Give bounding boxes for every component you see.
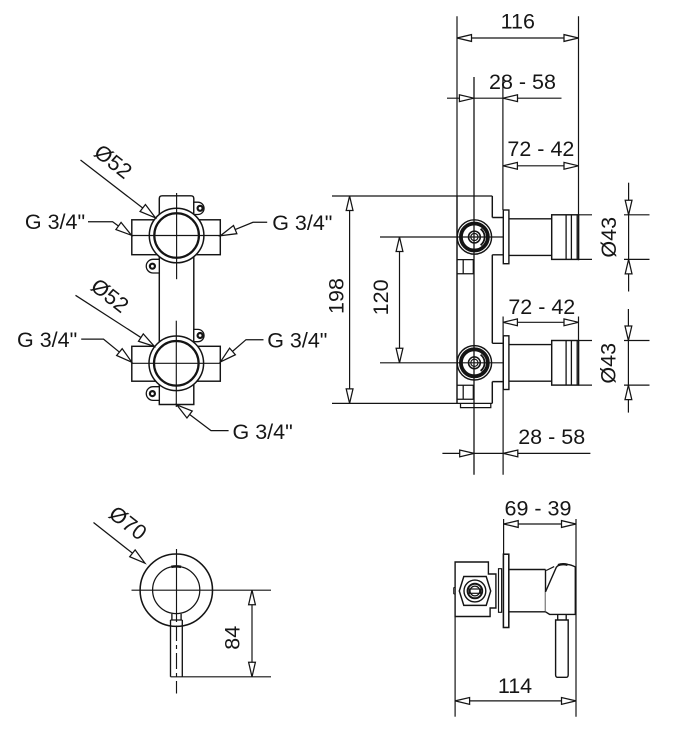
pipe valve 2 bbox=[509, 345, 552, 382]
valve 2 boss circles bbox=[457, 346, 491, 380]
leader O70 bbox=[94, 523, 135, 555]
side tab below valve 1 bbox=[457, 260, 473, 274]
leader G 3/4 upper-left bbox=[88, 222, 122, 229]
mounting tab top-right of valve 1 bbox=[194, 202, 204, 214]
svg-text:G 3/4": G 3/4" bbox=[233, 420, 293, 444]
handle rod bbox=[556, 620, 569, 677]
trim sleeve cylinder bbox=[509, 570, 546, 612]
dim 72-42 bottom line bbox=[503, 321, 579, 323]
dim 72-42 bottom extension left bbox=[502, 317, 504, 475]
flange valve 2 bbox=[503, 336, 509, 390]
centerline valve 1 bbox=[380, 236, 509, 238]
screw hole bottom-left valve 1 bbox=[150, 264, 155, 269]
screw slot bbox=[469, 589, 480, 593]
leader G 3/4 lower-left bbox=[81, 339, 121, 354]
dim 120 line bbox=[399, 237, 401, 363]
dim 28-58 top line bbox=[447, 97, 562, 99]
pipe valve 1 bbox=[509, 219, 552, 256]
leader line O52 valve 1 bbox=[81, 160, 145, 209]
dim 198 line bbox=[349, 196, 351, 403]
svg-text:Ø43: Ø43 bbox=[597, 217, 621, 258]
valve body vertical column bbox=[159, 196, 194, 405]
side tab below valve 2 bbox=[457, 385, 473, 399]
handle cap bbox=[546, 564, 576, 614]
centerline horizontal valve 1 bbox=[132, 235, 221, 237]
body step to flange valve 2 bbox=[492, 343, 503, 381]
dim O43 top stubs bbox=[579, 215, 650, 260]
dim 72-42 bottom extension right bbox=[578, 317, 580, 341]
svg-text:G 3/4": G 3/4" bbox=[267, 329, 327, 353]
svg-text:114: 114 bbox=[498, 674, 532, 698]
dim O43 bottom line bbox=[627, 309, 629, 413]
mounting tab bottom-left of valve 1 bbox=[146, 259, 159, 273]
body step to flange valve 1 bbox=[492, 218, 503, 255]
svg-text:Ø43: Ø43 bbox=[597, 343, 621, 384]
centerline vertical valve 1 bbox=[176, 193, 178, 279]
dim 28-58 top right extension bbox=[502, 77, 504, 210]
dim 114 line bbox=[455, 700, 576, 702]
dim 116 extension left bbox=[456, 16, 458, 196]
body right edge segments bbox=[491, 196, 493, 403]
screw hole bottom-left valve 2 bbox=[150, 391, 155, 396]
plate back plane line bbox=[473, 77, 475, 475]
cross connection block valve 1 bbox=[132, 220, 221, 255]
svg-text:69 - 39: 69 - 39 bbox=[505, 497, 572, 521]
dim 116 extension right bbox=[578, 16, 580, 260]
dim 72-42 top line bbox=[503, 165, 579, 167]
dim 116 line bbox=[457, 37, 579, 39]
wall plate left edge bbox=[456, 196, 458, 403]
leader G 3/4 upper-right bbox=[233, 222, 268, 230]
mounting tab bottom-left of valve 2 bbox=[146, 387, 159, 401]
stem bottom line extended bbox=[171, 676, 272, 678]
dim O43 bottom stubs bbox=[579, 341, 650, 386]
dim 28-58 bottom line bbox=[442, 452, 590, 454]
svg-text:G 3/4": G 3/4" bbox=[17, 328, 77, 352]
nut circles bbox=[464, 580, 486, 602]
body bottom edge with 198 extension bbox=[332, 402, 492, 404]
dim 69-39 extension left bbox=[503, 519, 505, 554]
svg-text:84: 84 bbox=[221, 626, 245, 650]
dim O43 top line bbox=[628, 183, 630, 292]
dim 114 extension left bbox=[454, 617, 456, 717]
handle stem bbox=[171, 620, 183, 677]
dim 69-39 line bbox=[504, 523, 576, 525]
svg-text:120: 120 bbox=[369, 279, 393, 315]
valve 2 inner circle bbox=[154, 341, 199, 386]
coupling valve 1 bbox=[552, 215, 579, 260]
mounting tab top-right of valve 2 bbox=[194, 329, 204, 341]
handle cap inner line bbox=[546, 567, 554, 571]
svg-text:72 - 42: 72 - 42 bbox=[508, 295, 575, 319]
flange valve 1 bbox=[503, 210, 509, 264]
centerline vertical bbox=[176, 549, 178, 622]
dim 84 line bbox=[251, 590, 253, 677]
HANDLE FRONT VIEW (bottom-left) bbox=[132, 549, 272, 694]
screw hole top-right valve 1 bbox=[198, 206, 203, 211]
handle stem neck bbox=[172, 614, 181, 620]
svg-text:28 - 58: 28 - 58 bbox=[518, 425, 585, 449]
valve 1 outer circle (O52) bbox=[149, 208, 204, 263]
handle top dark arc bbox=[558, 563, 568, 566]
svg-text:198: 198 bbox=[325, 278, 349, 314]
body top edge with 198 extension bbox=[332, 195, 492, 197]
svg-text:116: 116 bbox=[501, 10, 535, 34]
lever hinge arc bbox=[171, 565, 181, 568]
svg-text:72 - 42: 72 - 42 bbox=[507, 137, 574, 161]
valve 2 outer circle (O52) bbox=[149, 336, 204, 391]
svg-text:28 - 58: 28 - 58 bbox=[489, 70, 556, 94]
centerline horizontal valve 2 bbox=[132, 362, 221, 364]
left inlet stub tick bbox=[454, 588, 455, 595]
centerline horizontal bbox=[132, 589, 272, 591]
leader G 3/4 bottom bbox=[188, 413, 229, 431]
handle rod neck bbox=[558, 614, 567, 620]
valve 1 boss circles bbox=[457, 220, 491, 254]
leader line O52 valve 2 bbox=[76, 295, 144, 339]
cross connection block valve 2 bbox=[132, 346, 221, 381]
leader G 3/4 lower-right bbox=[230, 340, 263, 354]
centerline vertical valve 2 bbox=[175, 321, 177, 407]
svg-text:G 3/4": G 3/4" bbox=[25, 210, 85, 234]
valve housing body bbox=[455, 562, 496, 617]
hex nut bbox=[459, 577, 490, 606]
svg-text:G 3/4": G 3/4" bbox=[272, 211, 332, 235]
centerline valve 2 bbox=[380, 362, 509, 364]
valve 1 inner circle bbox=[154, 213, 199, 258]
SIDE VIEW (top-right): rough-in body profile bbox=[332, 77, 579, 475]
coupling valve 2 bbox=[552, 341, 579, 386]
handle inner circle bbox=[153, 566, 200, 613]
MIXER SIDE VIEW (bottom-right) bbox=[454, 554, 576, 677]
bottom mounting lug bbox=[461, 403, 491, 407]
dim 69-39 / 114 extension right bbox=[575, 519, 577, 717]
screw hole top-right valve 2 bbox=[198, 333, 203, 338]
escutcheon flange bbox=[503, 554, 508, 627]
handle outer circle O70 bbox=[140, 554, 212, 626]
wall plate edge bbox=[499, 569, 502, 613]
